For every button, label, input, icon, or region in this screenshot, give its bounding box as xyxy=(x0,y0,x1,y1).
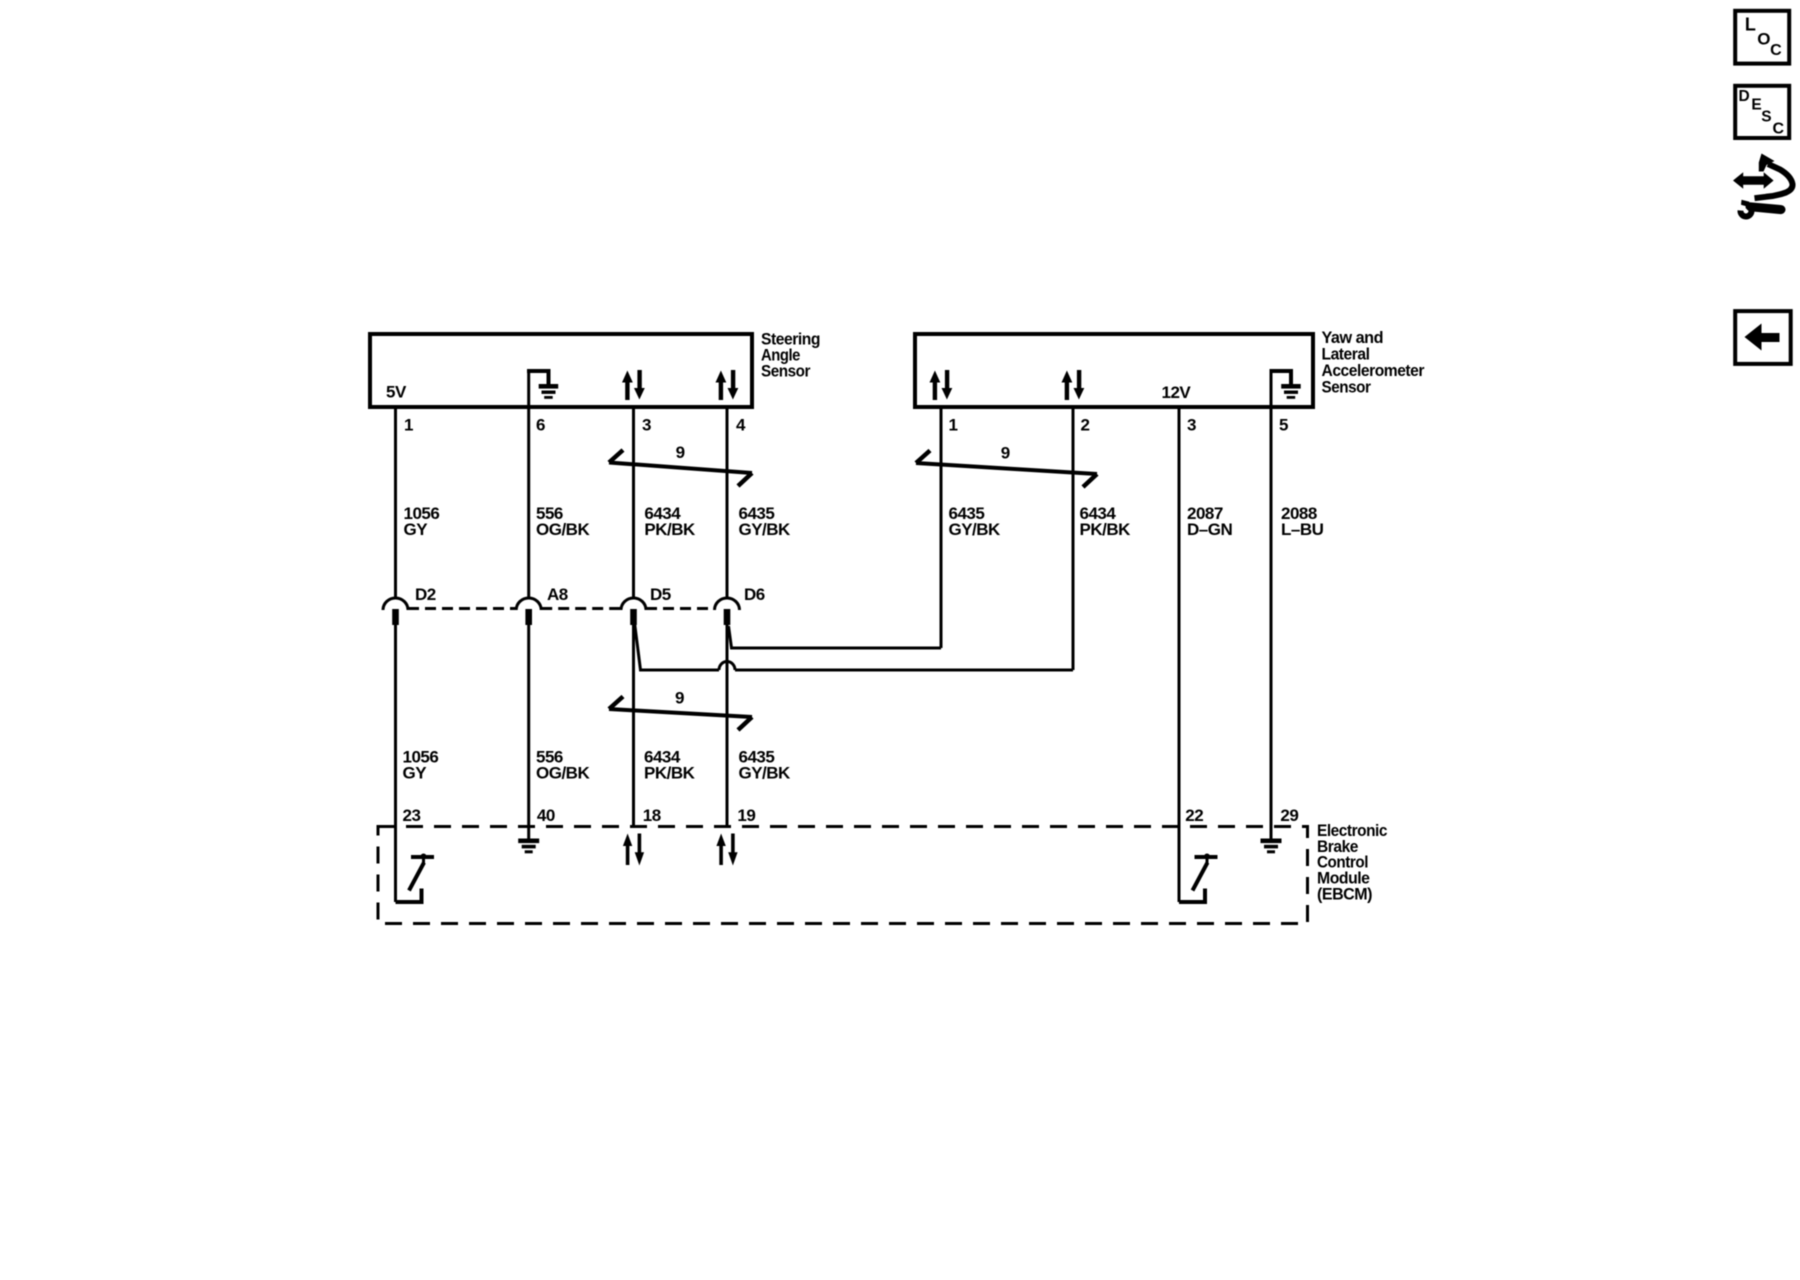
wire: Yaw pin 2 (6434 PK/BK) xyxy=(1072,408,1075,670)
wire: branch from D6 to Yaw pin 1 (6435 serial data link) xyxy=(729,626,942,648)
svg-text:D: D xyxy=(1739,88,1750,105)
ground symbol inside EBCM at pin 29 xyxy=(1261,827,1282,853)
wire label 556 OG/BK (upper) xyxy=(536,504,590,539)
bidirectional signal arrows inside Steering box at pin 4 xyxy=(716,370,739,400)
svg-text:GY/BK: GY/BK xyxy=(949,520,1002,539)
label: Steering Angle Sensor xyxy=(761,330,820,381)
connector D5: arc and pin terminal xyxy=(621,598,646,625)
twisted pair symbol 9: Steering pins 3-4 xyxy=(609,450,752,486)
wire: Yaw pin 5 (2088 L-BU) down to EBCM pin 29 xyxy=(1270,408,1273,827)
wire label 6435 GY/BK (yaw pin 1) xyxy=(949,504,1002,539)
bidirectional signal arrows inside Yaw box at pin 1 xyxy=(930,370,953,400)
svg-text:Sensor: Sensor xyxy=(1322,377,1372,396)
connector box: Yaw and Lateral Accelerometer Sensor xyxy=(915,334,1313,407)
inline connector row: dashed tie line xyxy=(408,607,715,610)
svg-text:PK/BK: PK/BK xyxy=(1080,520,1132,539)
svg-text:GY: GY xyxy=(404,520,429,539)
label: Yaw and Lateral Accelerometer Sensor xyxy=(1322,328,1425,396)
svg-text:C: C xyxy=(1770,42,1782,59)
svg-text:12V: 12V xyxy=(1162,383,1192,402)
icon: DESC hyperlink box xyxy=(1735,86,1789,138)
module box: Electronic Brake Control Module (EBCM), dashed xyxy=(378,827,1308,924)
svg-text:GY: GY xyxy=(403,764,428,783)
connector box: Steering Angle Sensor xyxy=(370,334,752,407)
svg-text:D2: D2 xyxy=(415,585,436,604)
wire label 6435 GY/BK (lower) xyxy=(739,748,792,783)
svg-text:OG/BK: OG/BK xyxy=(536,520,590,539)
wire: Steering pin 3 (6434 PK/BK) upper segment xyxy=(632,408,635,598)
icon: back navigation arrow box xyxy=(1735,311,1791,364)
svg-text:A8: A8 xyxy=(547,585,568,604)
connector D2: arc and pin terminal xyxy=(383,598,408,625)
svg-text:(EBCM): (EBCM) xyxy=(1317,885,1372,904)
svg-text:PK/BK: PK/BK xyxy=(644,764,696,783)
driver switch symbol inside EBCM at pin 22 xyxy=(1179,854,1218,903)
svg-text:C: C xyxy=(1773,121,1785,138)
svg-text:5: 5 xyxy=(1279,416,1288,435)
wire label 2088 L-BU xyxy=(1281,504,1324,539)
svg-text:40: 40 xyxy=(537,806,555,825)
wire: Steering pin 4 (6435 GY/BK) upper segment xyxy=(726,408,729,598)
svg-text:3: 3 xyxy=(1187,416,1196,435)
twisted pair symbol 9: lower run pins 18-19 xyxy=(609,697,752,731)
svg-text:9: 9 xyxy=(1001,444,1010,463)
svg-text:O: O xyxy=(1757,30,1770,49)
svg-text:S: S xyxy=(1761,108,1771,125)
svg-text:19: 19 xyxy=(737,806,755,825)
bidirectional signal arrows inside Yaw box at pin 2 xyxy=(1062,370,1085,400)
svg-text:PK/BK: PK/BK xyxy=(644,520,696,539)
svg-text:9: 9 xyxy=(676,443,685,462)
svg-text:D5: D5 xyxy=(650,585,671,604)
bidirectional signal arrows inside EBCM at pin 19 xyxy=(716,834,737,866)
wire hop: crossover arc over pin 4 wire xyxy=(719,662,735,671)
svg-text:9: 9 xyxy=(675,688,684,707)
svg-text:D6: D6 xyxy=(744,585,765,604)
svg-text:D–GN: D–GN xyxy=(1187,520,1232,539)
wire: Steering pin 3 lower segment to EBCM pin 18 xyxy=(632,610,635,827)
wire label 6434 PK/BK (yaw pin 2) xyxy=(1080,504,1132,539)
bidirectional signal arrows inside EBCM at pin 18 xyxy=(623,834,644,866)
icon: connector repair (arrows and wrench) xyxy=(1733,154,1793,217)
svg-text:6: 6 xyxy=(536,416,545,435)
wire: Steering pin 6 (556 OG/BK) upper segment xyxy=(527,408,530,598)
svg-text:29: 29 xyxy=(1280,806,1298,825)
wire label 1056 GY (upper) xyxy=(404,504,440,539)
bidirectional signal arrows inside Steering box at pin 3 xyxy=(622,370,645,400)
svg-text:E: E xyxy=(1751,97,1761,114)
svg-text:OG/BK: OG/BK xyxy=(536,764,590,783)
wire: Yaw pin 1 (6435 GY/BK) xyxy=(940,408,943,648)
svg-text:1: 1 xyxy=(949,416,958,435)
ground symbol inside EBCM at pin 40 xyxy=(518,827,539,853)
wire: continuation of D5 branch to Yaw pin 2 xyxy=(735,669,1073,672)
wire: Steering pin 4 lower segment to EBCM pin 19 xyxy=(726,610,729,827)
svg-text:22: 22 xyxy=(1185,806,1203,825)
svg-text:18: 18 xyxy=(643,806,661,825)
label: Electronic Brake Control Module (EBCM) xyxy=(1317,821,1387,904)
svg-text:L: L xyxy=(1745,15,1756,35)
svg-text:2: 2 xyxy=(1081,416,1090,435)
wire: Steering pin 1 (1056 GY) upper segment xyxy=(394,408,397,598)
wire label 6434 PK/BK (upper) xyxy=(644,504,696,539)
wire label 6434 PK/BK (lower) xyxy=(644,748,696,783)
wire: Steering pin 1 lower segment to EBCM pin 23 xyxy=(394,610,397,902)
wire label 6435 GY/BK (upper) xyxy=(739,504,792,539)
svg-text:3: 3 xyxy=(642,416,651,435)
svg-text:Sensor: Sensor xyxy=(761,362,811,381)
svg-text:L–BU: L–BU xyxy=(1281,520,1324,539)
wire: branch from D5 to Yaw pin 2 (6434 serial data link) xyxy=(635,623,720,671)
wire label 2087 D-GN xyxy=(1187,504,1232,539)
svg-text:5V: 5V xyxy=(386,383,407,402)
svg-text:GY/BK: GY/BK xyxy=(739,764,792,783)
ground symbol inside Steering box at pin 6 xyxy=(527,371,558,407)
svg-text:GY/BK: GY/BK xyxy=(739,520,792,539)
connector A8: arc and pin terminal xyxy=(516,598,541,625)
wire: Steering pin 6 lower segment to EBCM pin 40 xyxy=(527,610,530,827)
wire label 556 OG/BK (lower) xyxy=(536,748,590,783)
svg-text:4: 4 xyxy=(736,416,746,435)
icon: LOC hyperlink box xyxy=(1735,11,1789,64)
svg-text:23: 23 xyxy=(403,806,421,825)
driver switch symbol inside EBCM at pin 23 xyxy=(396,854,435,903)
twisted pair symbol 9: Yaw pins 1-2 xyxy=(916,451,1097,488)
wire: Yaw pin 3 (2087 D-GN) down to EBCM pin 22 xyxy=(1178,408,1181,902)
wire label 1056 GY (lower) xyxy=(403,748,439,783)
connector D6: arc and pin terminal xyxy=(715,598,740,625)
ground symbol inside Yaw box at pin 5 xyxy=(1270,371,1301,407)
svg-text:1: 1 xyxy=(404,416,413,435)
